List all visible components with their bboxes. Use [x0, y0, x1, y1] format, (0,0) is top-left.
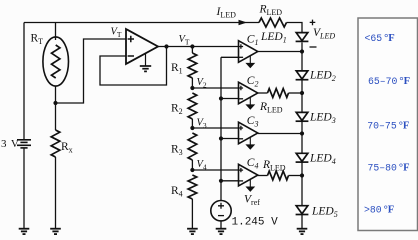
current arrow I_LED on top rail — [239, 20, 248, 25]
node: LED3/LED4 junction — [300, 131, 304, 135]
voltage source V_ref 1.245 V — [211, 201, 231, 221]
svg-text:°F: °F — [399, 163, 410, 174]
svg-text:65–70: 65–70 — [368, 76, 398, 87]
legend panel — [358, 18, 418, 231]
ground (battery) — [19, 228, 30, 230]
svg-text:LED5: LED5 — [311, 206, 338, 220]
comparator C1 — [239, 41, 258, 63]
svg-text:ILED: ILED — [216, 6, 237, 20]
svg-text:Rx: Rx — [61, 141, 73, 155]
node: V_T ladder top — [190, 44, 194, 48]
node: LED1/LED2 junction — [300, 49, 304, 53]
wire: battery to ground — [23, 149, 25, 229]
svg-text:VT: VT — [111, 27, 122, 40]
node: LED2/LED3 junction — [300, 91, 304, 95]
svg-text:<65: <65 — [365, 33, 383, 44]
LED_1 — [296, 33, 308, 41]
svg-text:RLED: RLED — [259, 4, 283, 18]
wire: bus tap to C4 - input — [221, 180, 239, 182]
wire: bus tap to C1 - input — [221, 56, 239, 58]
op-amp U1 buffer — [126, 29, 158, 64]
comparator C4 — [239, 164, 258, 186]
LED_4 — [296, 153, 308, 161]
svg-text:R1: R1 — [171, 62, 183, 76]
svg-text:LED3: LED3 — [309, 112, 336, 126]
ground (R_x) — [50, 228, 61, 230]
svg-text:75–80: 75–80 — [368, 163, 398, 174]
ground (op-amp) — [145, 54, 147, 67]
svg-text:RT: RT — [31, 33, 44, 47]
ground (C3) — [249, 137, 251, 145]
node V_2 — [190, 86, 194, 90]
node: bus tap C4 — [219, 179, 223, 183]
svg-text:Vref: Vref — [244, 194, 260, 208]
wire: C3 output to LED rail — [258, 133, 302, 135]
ground (V_ref) — [216, 228, 227, 230]
svg-text:3 V: 3 V — [1, 138, 19, 150]
wire: V_4 to C4 + input — [192, 169, 238, 171]
wire: thermistor bottom lead to node — [55, 86, 57, 103]
node: bus tap C2 — [219, 96, 223, 100]
svg-text:VLED: VLED — [313, 27, 335, 41]
svg-text:R4: R4 — [171, 185, 183, 199]
LED_2 — [296, 71, 308, 79]
wire: thermistor top lead — [55, 23, 57, 41]
wire: op-amp output to C1 + input — [158, 46, 239, 48]
wire: left vertical from top rail to battery — [23, 23, 25, 140]
svg-text:RLED: RLED — [262, 159, 286, 173]
node V_4 — [190, 168, 194, 172]
node: LED4/LED5 junction — [300, 173, 304, 177]
wire: V_ref source to ground — [220, 221, 222, 229]
wire: R_LED (C4) to rail — [289, 175, 303, 177]
wire: bus tap to C2 - input — [221, 98, 239, 100]
ground (C1) — [249, 56, 251, 64]
svg-text:C1: C1 — [247, 34, 259, 48]
wire: bus tap to C3 - input — [221, 138, 239, 140]
wire: C1 output to LED rail — [258, 51, 302, 53]
resistor R_LED (C4) — [268, 171, 289, 180]
svg-text:C4: C4 — [247, 157, 259, 171]
LED_3 — [296, 112, 308, 120]
svg-text:LED4: LED4 — [309, 153, 336, 167]
wire: R_LED to LED rail corner — [287, 23, 303, 34]
svg-text:LED1: LED1 — [260, 31, 287, 45]
svg-text:R2: R2 — [171, 103, 183, 117]
resistor R_1 — [191, 47, 193, 54]
wire: V_ref bus vertical — [220, 57, 222, 200]
resistor R_LED (top) — [259, 18, 287, 27]
resistor R_2 — [188, 93, 197, 119]
resistor R_4 — [188, 175, 197, 199]
node: op-amp output — [164, 44, 168, 48]
ground (C4) — [249, 179, 251, 187]
svg-text:R3: R3 — [171, 144, 183, 158]
svg-text:70–75: 70–75 — [367, 121, 397, 132]
svg-text:LED2: LED2 — [309, 70, 336, 84]
wire: V_3 to C3 + input — [192, 127, 238, 129]
svg-text:°F: °F — [399, 76, 410, 87]
svg-text:>80: >80 — [364, 205, 382, 216]
svg-text:°F: °F — [384, 33, 395, 44]
svg-text:°F: °F — [399, 121, 410, 132]
comparator C3 — [239, 122, 258, 144]
resistor R_x — [55, 103, 57, 130]
wire: top supply rail — [24, 22, 259, 24]
thermistor R_T (ellipse + zigzag) — [43, 37, 69, 86]
wire: feedback loop output to inverting input — [100, 47, 167, 86]
svg-text:C2: C2 — [247, 75, 259, 89]
svg-text:1.245 V: 1.245 V — [232, 217, 279, 229]
node V_3 — [190, 126, 194, 130]
comparator C2 — [239, 82, 258, 104]
wire: V_2 to C2 + input — [192, 87, 238, 89]
node: bus tap C3 — [219, 136, 223, 140]
LED_5 — [296, 206, 308, 214]
resistor R_3 — [188, 133, 197, 160]
wire: R_x to ground — [55, 157, 57, 229]
wire: R_4 to ground — [191, 199, 193, 229]
svg-text:°F: °F — [384, 205, 395, 216]
wire: LED rail segments — [301, 42, 303, 51]
ground (ladder) — [187, 228, 198, 230]
node: R_T / R_x divider junction — [53, 101, 57, 105]
ground (C2) — [249, 97, 251, 105]
wire: R_LED (C2) to rail — [289, 92, 303, 94]
plus mark (V_LED +) — [310, 20, 316, 26]
ground (LED rail) — [297, 228, 308, 230]
wire: C4 output lead — [258, 175, 268, 177]
resistor R_LED (C2) — [268, 89, 289, 98]
battery 3V — [17, 139, 31, 141]
svg-text:VT: VT — [179, 34, 190, 47]
svg-text:C3: C3 — [247, 115, 259, 129]
svg-text:RLED: RLED — [259, 101, 283, 115]
minus mark (V_LED -) — [310, 46, 317, 48]
wire: node to op-amp + input (right, up, right) — [56, 39, 127, 103]
wire: C2 output lead — [258, 92, 268, 94]
